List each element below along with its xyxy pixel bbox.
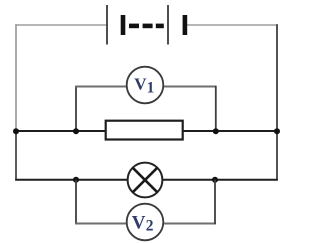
wire lamp line right	[163, 179, 278, 181]
lamp L1 cross stroke 2	[133, 168, 157, 192]
wire lamp line left	[15, 179, 128, 181]
resistor R1	[106, 121, 183, 140]
battery B1 dashed link dash 2	[143, 24, 153, 29]
battery B1 dashed link dash 1	[129, 24, 139, 29]
battery B1 right short thick plate	[183, 15, 188, 35]
wire V1 branch left vertical	[75, 86, 77, 132]
node V2 branch left / lamp line	[73, 177, 79, 183]
voltmeter V2 circle	[127, 204, 164, 241]
battery B1 left long plate	[106, 5, 108, 45]
node V2 branch right / lamp line	[212, 177, 218, 183]
voltmeter V1 circle	[127, 67, 164, 104]
wire middle line left of resistor	[15, 130, 106, 132]
node left rail / middle line	[13, 128, 19, 134]
node V1 branch right / middle line	[213, 128, 219, 134]
wire top-right (battery to right rail)	[187, 24, 278, 26]
wire V1 branch right vertical	[215, 86, 217, 132]
svg-text:1: 1	[147, 79, 155, 96]
battery B1 left short thick plate	[121, 15, 126, 35]
wire V2 branch right vertical	[214, 180, 216, 225]
svg-text:2: 2	[146, 218, 154, 235]
wire V2 branch bottom-right horizontal	[164, 223, 216, 225]
wire V2 branch bottom-left horizontal	[75, 223, 127, 225]
wire V1 branch right horizontal	[164, 86, 217, 88]
svg-text:V: V	[132, 213, 146, 234]
wire left rail upper segment	[15, 24, 17, 131]
battery B1 dashed link dash 3	[156, 24, 164, 29]
wire V1 branch left horizontal	[75, 86, 127, 88]
lamp L1 cross stroke 1	[133, 168, 157, 192]
node right rail / middle line	[274, 128, 280, 134]
wire left rail lower segment	[15, 132, 17, 181]
wire right rail	[276, 24, 278, 180]
wire top-left (left rail to battery)	[15, 24, 107, 26]
wire middle line right of resistor	[183, 130, 278, 132]
svg-text:V: V	[134, 75, 147, 94]
node V1 branch left / middle line	[73, 128, 79, 134]
battery B1 right long plate	[167, 5, 169, 45]
wire V2 branch left vertical	[75, 180, 77, 225]
lamp L1 circle	[128, 163, 163, 198]
